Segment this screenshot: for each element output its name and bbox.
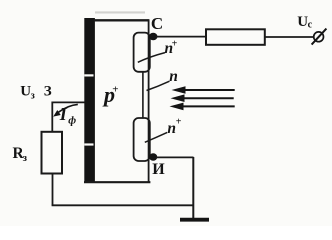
svg-text:C: C xyxy=(151,14,163,33)
source wire И to right xyxy=(156,156,194,158)
svg-text:U: U xyxy=(297,14,308,30)
wire Rз to bottom xyxy=(52,174,54,206)
photocurrent arrow Iф xyxy=(59,104,78,112)
p+ body right edge xyxy=(148,19,150,183)
svg-text:+: + xyxy=(112,84,118,96)
light arrow 1 xyxy=(172,86,235,94)
gap in bar upper xyxy=(84,74,93,76)
ground bar xyxy=(180,218,209,222)
svg-text:I: I xyxy=(59,104,68,124)
drain wire to resistor xyxy=(156,36,206,38)
terminal slash xyxy=(312,29,327,45)
wire resistor to terminal xyxy=(265,36,314,38)
gap in bar lower xyxy=(84,143,93,145)
svg-text:+: + xyxy=(172,38,178,49)
pointer line to upper n+ xyxy=(138,53,165,63)
n+ region upper (drain) xyxy=(134,33,150,72)
scan streak above body xyxy=(95,11,145,13)
n channel left boundary xyxy=(142,72,144,119)
pointer line to lower n+ xyxy=(145,132,167,142)
gate wire horizontal xyxy=(52,101,85,103)
svg-text:з: з xyxy=(23,153,27,164)
svg-text:И: И xyxy=(152,161,165,178)
light arrow 2 xyxy=(171,94,234,102)
output terminal circle xyxy=(314,32,324,42)
svg-text:ф: ф xyxy=(68,114,76,126)
pointer line to channel xyxy=(147,81,170,90)
svg-text:з: з xyxy=(31,90,35,101)
svg-text:U: U xyxy=(20,83,31,99)
source contact dot И xyxy=(149,153,157,160)
light arrow 3 xyxy=(170,103,235,111)
n+ region lower (source) xyxy=(134,118,150,161)
p+ body bottom edge xyxy=(84,181,150,183)
right vertical wire xyxy=(192,157,194,220)
gate metal bar (black electrode) xyxy=(84,18,95,183)
p+ body outline top edge xyxy=(94,19,149,21)
gate resistor Rз xyxy=(42,132,63,174)
gate wire vertical xyxy=(51,102,53,132)
svg-text:З: З xyxy=(44,83,52,99)
svg-text:c: c xyxy=(308,19,313,30)
svg-text:n: n xyxy=(169,68,178,85)
drain contact dot C xyxy=(149,33,158,41)
svg-text:+: + xyxy=(176,116,182,127)
load resistor xyxy=(206,29,265,45)
bottom wire xyxy=(52,204,194,206)
